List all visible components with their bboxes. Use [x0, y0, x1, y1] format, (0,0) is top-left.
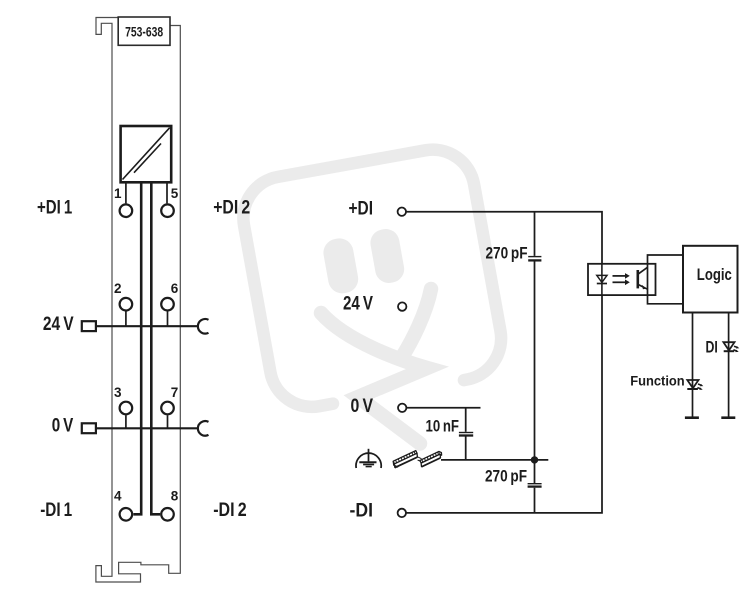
svg-text:24 V: 24 V: [43, 314, 74, 335]
svg-text:7: 7: [171, 385, 179, 400]
ground bars: [359, 461, 376, 463]
pin 6 circle: [161, 298, 174, 311]
thick wire right (square to pin 8): [151, 182, 160, 514]
LED Function triangle: [687, 380, 698, 388]
0V bus hook: [198, 421, 209, 436]
pin 8 circle: [161, 508, 174, 521]
bracket to logic: [648, 255, 684, 304]
right slab front face: [421, 454, 440, 467]
label box 753-638: [118, 17, 170, 45]
LED DI cathode bar: [724, 350, 735, 352]
capacitor C2 10nF stem upper: [465, 408, 467, 432]
wire stem pin 3: [125, 415, 127, 428]
watermark rounded square outline: [237, 143, 508, 414]
terminal +DI: [398, 208, 406, 216]
right slab end step: [439, 451, 442, 455]
wire logic to DI LED: [728, 313, 730, 418]
svg-text:6: 6: [171, 281, 179, 296]
svg-text:270 pF: 270 pF: [485, 468, 527, 486]
watermark smile: [321, 313, 427, 444]
opto LED cathode bar: [597, 283, 607, 285]
svg-text:8: 8: [171, 489, 179, 504]
capacitor C2 10nF stem lower: [465, 436, 467, 460]
wire stem pin 5: [166, 182, 168, 203]
ground symbol arc: [356, 453, 381, 468]
pin 3 circle: [120, 402, 133, 415]
junction dot: [531, 456, 538, 463]
ground stem tick: [366, 452, 371, 454]
svg-text:+DI 1: +DI 1: [37, 197, 73, 218]
channel between slabs: [417, 457, 421, 462]
LED Function cathode bar: [687, 388, 698, 390]
svg-text:1: 1: [114, 186, 122, 201]
right slab hatched strip: [420, 451, 440, 463]
svg-text:DI: DI: [706, 338, 718, 357]
svg-text:0 V: 0 V: [351, 396, 374, 417]
DIN rail symbol: [393, 451, 441, 468]
terminator bar Function: [685, 416, 699, 419]
svg-text:+DI: +DI: [349, 199, 374, 220]
0V terminal box: [82, 423, 96, 433]
capacitor C3 270pF plates: [528, 483, 542, 485]
wire capacitor branch lower: [534, 460, 536, 483]
wire stem pin 2: [125, 311, 127, 326]
pin 7 circle: [161, 402, 174, 415]
wire 0V: [407, 407, 481, 409]
0V bus wire: [96, 427, 197, 429]
pin 5 circle: [161, 204, 174, 217]
phototransistor emitter: [639, 285, 648, 290]
wire +DI to opto: [406, 212, 602, 264]
svg-text:Logic: Logic: [697, 265, 732, 284]
svg-text:24 V: 24 V: [343, 294, 373, 315]
opto arrow 1: [613, 275, 626, 277]
opto arrow 2: [613, 281, 626, 283]
LED DI triangle: [723, 342, 734, 350]
wire -DI to opto: [406, 295, 602, 513]
opto LED triangle: [597, 275, 607, 282]
svg-text:-DI 1: -DI 1: [40, 500, 72, 521]
thick wire left (square to pin 4): [133, 182, 141, 514]
wire stem pin 6: [167, 311, 169, 326]
svg-text:5: 5: [171, 186, 179, 201]
ground stem: [368, 449, 370, 462]
left slab hatched strip: [393, 451, 417, 464]
svg-text:3: 3: [114, 385, 122, 400]
wire rail to junction: [441, 459, 548, 461]
pin 4 circle: [120, 508, 133, 521]
wire logic to Function LED: [692, 313, 694, 418]
phototransistor base bar: [636, 270, 639, 288]
slab bottom shadow edges: [395, 457, 441, 468]
capacitor C1 270pF plates: [528, 256, 541, 258]
wire stem pin 7: [167, 415, 169, 428]
pin 2 circle: [120, 298, 133, 311]
terminal -DI: [398, 509, 406, 517]
svg-text:+DI 2: +DI 2: [213, 197, 250, 218]
terminal 24V right: [398, 302, 406, 310]
24V bus hook: [198, 319, 209, 334]
left slab foot: [393, 461, 398, 467]
logic box: [683, 246, 738, 313]
watermark WAGO logo: [237, 143, 508, 444]
LED Function arrows: [698, 384, 701, 385]
pin 1 circle: [120, 204, 133, 217]
watermark eye left: [321, 236, 360, 295]
wire stem pin 1: [125, 182, 127, 203]
24V terminal box: [82, 321, 96, 331]
module outline: [96, 18, 180, 583]
wire cap C3 to -DI: [534, 488, 536, 513]
connector square diagonal long: [123, 128, 170, 180]
watermark eye right: [368, 227, 406, 285]
24V bus wire: [96, 325, 197, 327]
svg-text:-DI 2: -DI 2: [213, 500, 247, 521]
opto box: [588, 264, 656, 295]
svg-text:Function: Function: [630, 373, 685, 389]
svg-text:-DI: -DI: [350, 501, 374, 522]
connector square: [121, 126, 172, 182]
wire capacitor branch upper: [534, 212, 536, 256]
connector square diagonal short: [134, 144, 161, 173]
capacitor C2 10nF plates: [459, 432, 473, 434]
svg-text:2: 2: [114, 281, 122, 296]
svg-text:270 pF: 270 pF: [486, 245, 528, 263]
svg-text:753-638: 753-638: [125, 23, 163, 39]
terminator bar DI: [721, 416, 735, 419]
phototransistor collector: [639, 267, 648, 274]
watermark smile right arm: [402, 289, 431, 357]
opto LED wire through: [601, 264, 603, 295]
svg-text:10 nF: 10 nF: [426, 418, 460, 436]
terminal 0V right: [398, 404, 406, 412]
svg-text:0 V: 0 V: [52, 416, 74, 437]
svg-text:4: 4: [114, 489, 122, 504]
left slab front face: [394, 453, 417, 467]
wire capacitor branch middle: [534, 262, 536, 460]
LED DI arrows: [734, 346, 737, 347]
